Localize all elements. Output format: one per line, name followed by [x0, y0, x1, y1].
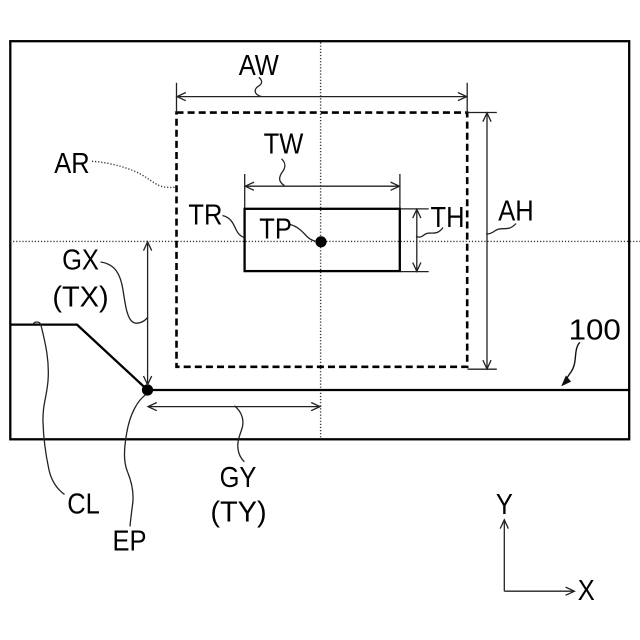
svg-text:100: 100: [569, 315, 621, 347]
dimension AW (arrow with extension ticks): [177, 83, 468, 113]
leader for EP: [124, 395, 146, 527]
point EP (dot): [142, 384, 153, 395]
dimension AH (arrow with extension ticks): [468, 113, 497, 370]
coordinate axis X: [504, 587, 574, 595]
leader for GX: [101, 262, 148, 323]
vertical dotted centerline: [320, 43, 322, 439]
svg-text:AR: AR: [54, 146, 89, 179]
svg-text:Y: Y: [496, 487, 513, 520]
svg-text:GX: GX: [62, 243, 99, 276]
point TP (center dot): [315, 236, 326, 247]
svg-text:TH: TH: [431, 200, 465, 233]
leader for AW: [255, 77, 261, 96]
coordinate axis Y: [500, 520, 508, 591]
svg-text:CL: CL: [67, 487, 100, 520]
leader for TW: [280, 159, 285, 186]
dimension TW (arrow with extension ticks): [245, 174, 400, 208]
horizontal dotted centerline: [10, 240, 640, 242]
leader arrow for 100: [565, 342, 580, 381]
svg-text:TW: TW: [264, 127, 304, 160]
svg-text:TP: TP: [259, 212, 292, 245]
leader for TR: [223, 216, 245, 238]
svg-text:EP: EP: [112, 524, 146, 557]
dimension GY (horizontal double arrow): [148, 403, 320, 411]
svg-text:AH: AH: [498, 194, 533, 227]
svg-text:GY: GY: [220, 460, 257, 493]
rectangle TR: [245, 209, 400, 271]
dimension GX (vertical double arrow): [144, 242, 152, 385]
svg-text:(TY): (TY): [210, 497, 266, 529]
leader for CL: [33, 322, 65, 494]
region AR (dashed rectangle): [177, 113, 468, 367]
dimension TH (arrow with extension ticks): [401, 209, 429, 272]
dotted leader for AR: [92, 161, 176, 187]
svg-text:TR: TR: [188, 198, 222, 231]
svg-text:X: X: [578, 573, 595, 606]
substrate outline 100 (outer rectangle): [10, 41, 629, 439]
svg-text:(TX): (TX): [52, 281, 108, 313]
wire: surface profile line CL to EP to right edge: [10, 325, 629, 390]
svg-text:AW: AW: [239, 48, 279, 81]
leader for GY: [234, 406, 244, 462]
leader for TH: [416, 228, 443, 238]
leader for TP: [290, 225, 315, 242]
leader for AH: [486, 224, 516, 234]
